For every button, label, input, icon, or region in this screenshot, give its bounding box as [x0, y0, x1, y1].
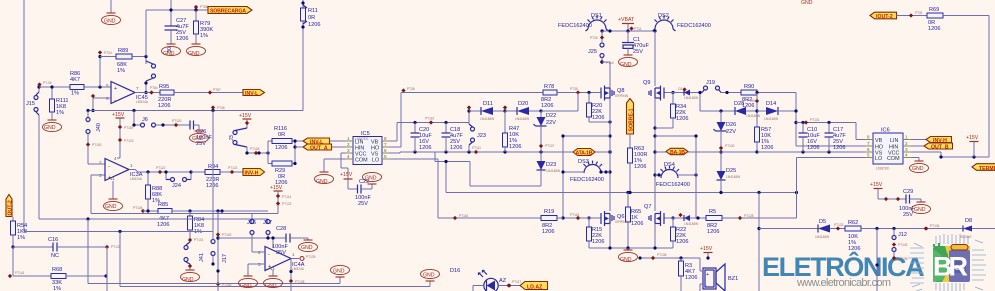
wire: Q6 source to rail	[609, 224, 611, 249]
svg-text:GND: GND	[163, 51, 175, 57]
svg-text:+15V: +15V	[239, 113, 252, 119]
resistor R94 220R 1206	[191, 164, 243, 189]
svg-text:+: +	[114, 86, 117, 92]
svg-text:1206: 1206	[685, 275, 697, 281]
svg-text:1: 1	[292, 252, 295, 257]
svg-text:NC: NC	[51, 253, 59, 259]
svg-text:1206: 1206	[450, 145, 462, 151]
svg-text:PT88: PT88	[200, 5, 208, 9]
diode D5 1N4148W	[815, 219, 845, 239]
svg-text:J12: J12	[898, 232, 907, 238]
svg-text:J15: J15	[26, 101, 35, 107]
resistor R78 8R2 1206	[541, 84, 599, 109]
svg-text:4K7: 4K7	[70, 77, 80, 83]
wire: source rail y=248	[589, 247, 673, 249]
svg-text:1206: 1206	[275, 180, 287, 186]
svg-text:D28: D28	[734, 101, 744, 107]
tag INV-H	[243, 169, 265, 177]
svg-text:PT139: PT139	[306, 255, 316, 259]
capacitor C26 100nF 25V	[190, 121, 212, 148]
op-amp IC45 LM324A	[106, 82, 149, 105]
svg-text:1206: 1206	[308, 22, 320, 28]
wire: row y=153 into parallel jumpers	[247, 152, 268, 154]
svg-text:1N4148W: 1N4148W	[480, 117, 494, 121]
diode D20 1N4148W	[503, 101, 541, 121]
svg-text:6: 6	[384, 148, 387, 153]
wire: Q6 gate row	[563, 217, 598, 219]
wire: J25 to Q8 drain	[600, 60, 603, 63]
svg-text:0R: 0R	[308, 15, 315, 21]
svg-text:J17: J17	[222, 254, 228, 263]
svg-text:PT103: PT103	[250, 147, 260, 151]
svg-text:PT87: PT87	[213, 88, 221, 92]
tag IOUT-2	[870, 12, 897, 20]
IC6 L6387ED gate driver (mirrored)	[865, 128, 911, 171]
resistor R29 0R 1206	[268, 153, 295, 186]
svg-text:PT143: PT143	[898, 243, 908, 247]
ground at end of row y=286.5	[429, 281, 431, 287]
svg-text:PT84: PT84	[150, 86, 158, 90]
LED D16 (blue)	[450, 268, 507, 291]
wire: bootstrap rail y=122.5	[397, 122, 469, 124]
svg-text:D14: D14	[766, 101, 776, 107]
resistor R22 22K 1206	[671, 216, 689, 248]
node J6 tap	[132, 109, 135, 112]
svg-text:GND: GND	[104, 19, 116, 25]
svg-text:IXFR94N: IXFR94N	[615, 220, 629, 224]
svg-text:D8: D8	[965, 218, 972, 224]
svg-text:OUT-2: OUT-2	[8, 200, 14, 215]
wire: VBAT rail y=31	[602, 30, 655, 32]
wire: IC6 VCC from +15V row	[911, 151, 941, 153]
svg-text:INV-H: INV-H	[245, 171, 259, 177]
svg-text:PT120: PT120	[172, 119, 182, 123]
svg-text:PT141: PT141	[15, 271, 25, 275]
svg-text:GND: GND	[620, 257, 632, 263]
svg-text:7: 7	[867, 141, 870, 146]
svg-text:25V: 25V	[903, 212, 913, 218]
resistor R11 0R 1206	[301, 1, 321, 28]
logo ELETRONICA BR watermark	[762, 251, 924, 289]
svg-text:1206: 1206	[807, 145, 819, 151]
+VBAT power	[618, 17, 635, 31]
+15V to IC3A pin4	[112, 112, 134, 158]
svg-text:PT11: PT11	[634, 27, 642, 31]
wire: IC3A + input from row y=213.5	[91, 174, 105, 176]
svg-text:PT117: PT117	[512, 280, 521, 284]
svg-text:GND: GND	[316, 179, 328, 185]
svg-text:PT122: PT122	[156, 166, 166, 170]
svg-text:COM: COM	[887, 156, 900, 162]
svg-text:1206: 1206	[928, 26, 940, 32]
wire: clamp row y=111 right side	[699, 93, 701, 112]
wire: IOUT-2 to R69	[897, 15, 928, 17]
wire: far-left J15 column x=39 down to row y=219	[38, 87, 40, 92]
connector J12	[892, 229, 907, 259]
resistor R68 33K 1% row	[8, 267, 107, 291]
svg-text:GND: GND	[188, 51, 200, 57]
svg-text:LD.AZ: LD.AZ	[527, 284, 543, 290]
diode D11 1N4148W	[467, 101, 505, 121]
wire: D5 row y=228.5	[759, 228, 818, 230]
svg-text:PT36: PT36	[407, 87, 415, 91]
tag OUT_A at IC5 HIN	[303, 144, 332, 152]
transistor Q9 (high side N-MOSFET, mirrored)	[643, 80, 666, 101]
svg-text:5: 5	[867, 153, 870, 158]
wire: IC3A output row y=172	[129, 170, 166, 173]
svg-text:6: 6	[867, 147, 870, 152]
+15V feed to connector row	[270, 185, 292, 214]
svg-text:4: 4	[347, 154, 350, 159]
svg-text:J23: J23	[477, 133, 486, 139]
+15V at IC6	[966, 135, 979, 157]
svg-text:D26: D26	[726, 122, 736, 128]
svg-text:D11: D11	[483, 101, 493, 107]
svg-text:11: 11	[110, 176, 115, 181]
svg-text:J16: J16	[247, 220, 256, 226]
diode D8 SS1040	[960, 218, 995, 239]
svg-text:D23: D23	[546, 162, 556, 168]
lamp DS2 FEDC162400	[653, 13, 711, 31]
wire: J17 long column x=213	[212, 111, 214, 238]
resistor R95 220R 1206	[158, 84, 243, 109]
connector J23	[469, 124, 486, 152]
svg-text:1N4148W: 1N4148W	[746, 114, 760, 118]
svg-text:PT35: PT35	[570, 87, 578, 91]
resistor R85 4K7 1206	[157, 202, 268, 228]
svg-text:PT134: PT134	[930, 224, 940, 228]
svg-text:PT101: PT101	[194, 238, 204, 242]
svg-text:3: 3	[347, 148, 350, 153]
svg-text:1206: 1206	[592, 115, 604, 121]
svg-text:PT46: PT46	[217, 106, 225, 110]
wire: phase B row to clamp column	[655, 151, 666, 153]
svg-text:7: 7	[136, 86, 139, 91]
svg-text:SOBRE-1: SOBRE-1	[629, 108, 635, 131]
svg-text:FEDC162400: FEDC162400	[570, 177, 604, 183]
svg-text:BA-1B: BA-1B	[670, 150, 685, 156]
wire: gate row y=92.5 to R78	[401, 92, 543, 94]
svg-text:OUT_A: OUT_A	[310, 146, 328, 152]
svg-text:-: -	[108, 164, 110, 170]
svg-text:PT119: PT119	[124, 126, 133, 130]
svg-text:1206: 1206	[275, 145, 287, 151]
wire: left return column x=563	[562, 136, 564, 218]
svg-text:C29: C29	[903, 189, 913, 195]
diode D25 1N4148W	[717, 152, 741, 193]
svg-text:PT100: PT100	[92, 143, 102, 147]
wire: VS stub	[390, 152, 400, 154]
transistor Q8 (high side N-MOSFET)	[599, 86, 629, 101]
wire: IC4A pin2 from J16	[251, 245, 253, 252]
svg-text:1%: 1%	[152, 198, 160, 204]
resistor R54 1K8 1%	[11, 217, 28, 247]
svg-text:7: 7	[384, 142, 387, 147]
svg-text:-: -	[268, 252, 270, 258]
ground source rail	[627, 248, 629, 250]
svg-text:1N4148W: 1N4148W	[764, 117, 778, 121]
svg-text:J19: J19	[706, 80, 715, 86]
ground under R111	[43, 120, 62, 132]
wire: feedback riser x=100 to R89 row	[99, 57, 101, 88]
capacitor C28 100nF 25V row	[216, 226, 308, 256]
svg-text:5: 5	[384, 154, 387, 159]
wire: VS rail y=152 right	[757, 151, 857, 153]
wire: clamp node column x=469	[468, 111, 470, 123]
tag INV-H at IC6 LIN	[911, 137, 952, 145]
svg-text:LM324A: LM324A	[292, 267, 305, 271]
wire: R11 column	[302, 27, 304, 111]
connector J16	[247, 214, 256, 246]
svg-text:J41: J41	[199, 253, 205, 262]
wire: feedback column x=146 with connector	[145, 57, 147, 65]
wire: HO riser x=401 to gate row	[390, 146, 401, 148]
svg-text:2: 2	[347, 142, 350, 147]
svg-text:LIN: LIN	[890, 138, 898, 144]
svg-text:GND: GND	[265, 283, 277, 289]
wire: R86 input row y=87	[39, 86, 70, 88]
capacitor C10 10uF 16V 1206	[799, 123, 821, 153]
wire: J40 column taps feedback row	[86, 109, 89, 112]
wire: drop x=120 to bottom row	[118, 230, 121, 233]
svg-text:D25: D25	[726, 168, 736, 174]
svg-text:1: 1	[905, 135, 908, 140]
svg-text:LO: LO	[372, 158, 379, 164]
svg-text:C22: C22	[359, 179, 369, 185]
svg-text:1206: 1206	[676, 239, 688, 245]
wire: LED cathode to tag	[498, 285, 520, 287]
svg-text:1206: 1206	[848, 246, 860, 252]
wire: IC3A inverting input	[88, 163, 105, 165]
connector J24 bypass	[166, 172, 191, 189]
resistor R90 8R2 1206	[741, 84, 796, 109]
svg-text:IC6: IC6	[881, 128, 890, 134]
wire: long row y=231.5 from x=24 bus	[23, 230, 25, 232]
wire: VS rail y=152 (phase A)	[400, 151, 610, 153]
resistor R88 68K 1%	[146, 172, 163, 213]
svg-text:LM324A: LM324A	[130, 177, 143, 181]
svg-text:PT121: PT121	[228, 166, 238, 170]
svg-text:SS1040: SS1040	[960, 235, 972, 239]
capacitor C22 100nF 25V	[348, 172, 382, 207]
svg-text:FEDC162400: FEDC162400	[558, 23, 592, 29]
zener D26 22V	[714, 111, 737, 152]
wire: clamp riser x=578	[577, 93, 579, 112]
lamp DS4 FEDC162400	[656, 162, 690, 188]
ground IC6 COM	[910, 158, 929, 173]
svg-text:1%: 1%	[17, 235, 25, 241]
svg-text:5: 5	[106, 83, 109, 88]
svg-text:1N4148W: 1N4148W	[546, 169, 560, 173]
svg-text:R11: R11	[308, 8, 318, 14]
svg-text:1206: 1206	[631, 221, 643, 227]
wire: stub R90 to clamp row	[756, 93, 758, 112]
wire: left column x=13 down	[12, 247, 14, 276]
svg-text:2: 2	[99, 160, 102, 165]
wire: inverting input row from loop y=110.5 to pin6	[93, 97, 111, 99]
svg-text:+15V: +15V	[112, 112, 125, 118]
svg-text:1206: 1206	[176, 36, 188, 42]
svg-text:GND: GND	[44, 125, 56, 131]
diode D28 1N4148W	[734, 101, 760, 118]
zener D22 22V	[534, 109, 557, 152]
wire: rejoin column x=295	[294, 141, 296, 164]
svg-text:25V: 25V	[358, 201, 368, 207]
svg-text:L6387ED: L6387ED	[876, 167, 890, 171]
tag ATA-1B (phase A)	[573, 149, 595, 157]
connector J26 in feedback	[146, 61, 156, 81]
svg-text:PT130: PT130	[725, 144, 735, 148]
svg-text:J40: J40	[96, 123, 102, 132]
tag INV-L	[243, 90, 265, 98]
connector J15	[26, 92, 39, 115]
resistor R5 8R2 1206	[706, 209, 797, 235]
wire: x=107 column between C16 and R68 rows	[106, 247, 108, 291]
resistor R15 22K 1206	[587, 216, 605, 248]
svg-text:R5: R5	[709, 209, 716, 215]
svg-text:1206: 1206	[761, 145, 773, 151]
svg-text:J25: J25	[588, 49, 597, 55]
svg-text:R62: R62	[848, 220, 858, 226]
diode D27 1N4148W (small)	[678, 213, 706, 226]
logo chip graphic	[908, 234, 986, 291]
svg-text:0R: 0R	[278, 132, 285, 138]
buzzer BZ1	[700, 258, 738, 291]
svg-text:GND: GND	[620, 62, 632, 68]
svg-text:D16: D16	[450, 268, 460, 274]
svg-text:J17: J17	[263, 220, 272, 226]
svg-text:1206: 1206	[206, 183, 218, 189]
svg-text:PT128: PT128	[744, 214, 754, 218]
svg-text:BZ1: BZ1	[728, 276, 738, 282]
svg-text:1%: 1%	[71, 91, 79, 97]
+15V at buzzer	[700, 246, 713, 260]
wire: Q9 drain column	[654, 31, 656, 86]
transistor Q7 (low side N-MOSFET, mirrored)	[644, 204, 666, 226]
svg-text:Q7: Q7	[644, 204, 651, 210]
node R89 left	[98, 55, 101, 58]
svg-text:PT110: PT110	[425, 117, 434, 121]
IC5 L6387ED gate driver	[345, 131, 390, 165]
svg-text:25V: 25V	[633, 49, 643, 55]
wire: IC45 output row y=92.5	[135, 92, 160, 94]
svg-text:1N4148W: 1N4148W	[684, 96, 698, 100]
node op-amp + input	[98, 85, 101, 88]
svg-text:1N4148W: 1N4148W	[684, 222, 698, 226]
svg-text:PT131: PT131	[810, 118, 820, 122]
wire: IC4A pin3 to ground	[248, 263, 265, 265]
resistor R62 10K 1% 1206	[845, 220, 963, 252]
wire: long feedback row y=110.5 to R11 column	[88, 110, 303, 112]
wire: buzzer feed row y=258	[640, 257, 700, 259]
svg-text:PT102: PT102	[222, 233, 232, 237]
svg-text:PT132: PT132	[834, 223, 844, 227]
transistor Q6 (low side N-MOSFET)	[598, 211, 629, 226]
resistor R57 10K 1% 1206	[755, 111, 774, 152]
diode D23 1N4148W	[537, 152, 561, 186]
svg-text:LM324A: LM324A	[136, 100, 149, 104]
svg-text:GND: GND	[240, 283, 252, 289]
svg-text:1: 1	[347, 136, 350, 141]
svg-text:2: 2	[905, 141, 908, 146]
svg-text:PT123: PT123	[124, 139, 134, 143]
svg-text:1%: 1%	[53, 286, 61, 291]
wire: bottom row y=286.5	[120, 286, 430, 288]
svg-text:PT135: PT135	[898, 257, 908, 261]
wire: sense rail drop x=762	[758, 193, 760, 291]
wire: Q9 gate row with small diode	[666, 92, 702, 94]
tag OUT_B at IC6 HIN	[911, 143, 953, 151]
connector J6 and C26	[134, 111, 190, 128]
resistor R86 4K7 1%	[70, 71, 111, 97]
svg-text:PT136: PT136	[657, 253, 667, 257]
lamp DS3 FEDC162400	[570, 159, 604, 183]
ground IC5 COM	[315, 159, 346, 185]
svg-text:R68: R68	[52, 267, 62, 273]
wire: Q7 source to rail	[654, 224, 656, 249]
wire: column x=877 down	[876, 229, 878, 291]
wire: phase A column	[609, 98, 611, 211]
ground at end of row y=283.5	[339, 277, 341, 284]
svg-text:R19: R19	[544, 209, 554, 215]
svg-text:R90: R90	[744, 84, 754, 90]
wire: tags to IC5 pins	[295, 146, 303, 148]
svg-text:C28: C28	[276, 226, 286, 232]
+15V to IC5 VCC	[340, 153, 353, 179]
wire: long row y=219 from J15 column	[39, 218, 268, 220]
connector J41	[184, 242, 205, 270]
ground stub top-left (cropped wire)	[110, 0, 112, 13]
wire: IC4A output	[291, 258, 299, 260]
svg-text:+15V: +15V	[700, 246, 713, 252]
svg-text:1206: 1206	[542, 229, 554, 235]
svg-text:IOUT-2: IOUT-2	[876, 14, 893, 20]
svg-text:1N4148W: 1N4148W	[815, 235, 829, 239]
capacitor C18 4u7F 25V 1206	[442, 123, 464, 153]
capacitor C29 100nF 25V	[899, 189, 931, 218]
wire: D23 return path	[470, 185, 541, 187]
wire: right return column x=696	[695, 136, 697, 218]
connector J17	[211, 237, 228, 264]
tag INV-L at IC5 LIN	[303, 138, 330, 146]
svg-text:AZ: AZ	[499, 278, 507, 284]
svg-text:22V: 22V	[546, 120, 556, 126]
svg-text:GND: GND	[333, 269, 345, 275]
svg-text:GND: GND	[192, 136, 204, 142]
svg-text:1206: 1206	[541, 103, 553, 109]
svg-text:+15V: +15V	[340, 172, 353, 178]
resistor R116 0R 1206	[268, 126, 303, 153]
tag TERMIC	[972, 164, 995, 172]
node J17 column tap	[211, 109, 214, 112]
connector J25	[588, 29, 604, 62]
svg-text:PT133: PT133	[111, 245, 121, 249]
svg-text:1206: 1206	[509, 144, 521, 150]
svg-text:PT138: PT138	[295, 280, 305, 284]
connector J18	[263, 219, 272, 238]
op-amp IC4A LM324A	[258, 244, 305, 271]
wire: column x=989 down to +15V row	[988, 16, 990, 158]
wire: LO route to low-side gate row	[390, 158, 438, 160]
svg-text:GND: GND	[801, 0, 813, 6]
svg-text:TERMIC: TERMIC	[979, 166, 995, 172]
svg-text:PT116: PT116	[459, 214, 468, 218]
wire: LO row to riser x=790	[797, 157, 858, 159]
svg-text:8: 8	[384, 136, 387, 141]
svg-text:FEDC162400: FEDC162400	[677, 23, 711, 29]
wire: drop x=88 to bottom row	[86, 217, 89, 220]
capacitor C17 4u7F 25V 1206	[825, 123, 847, 153]
